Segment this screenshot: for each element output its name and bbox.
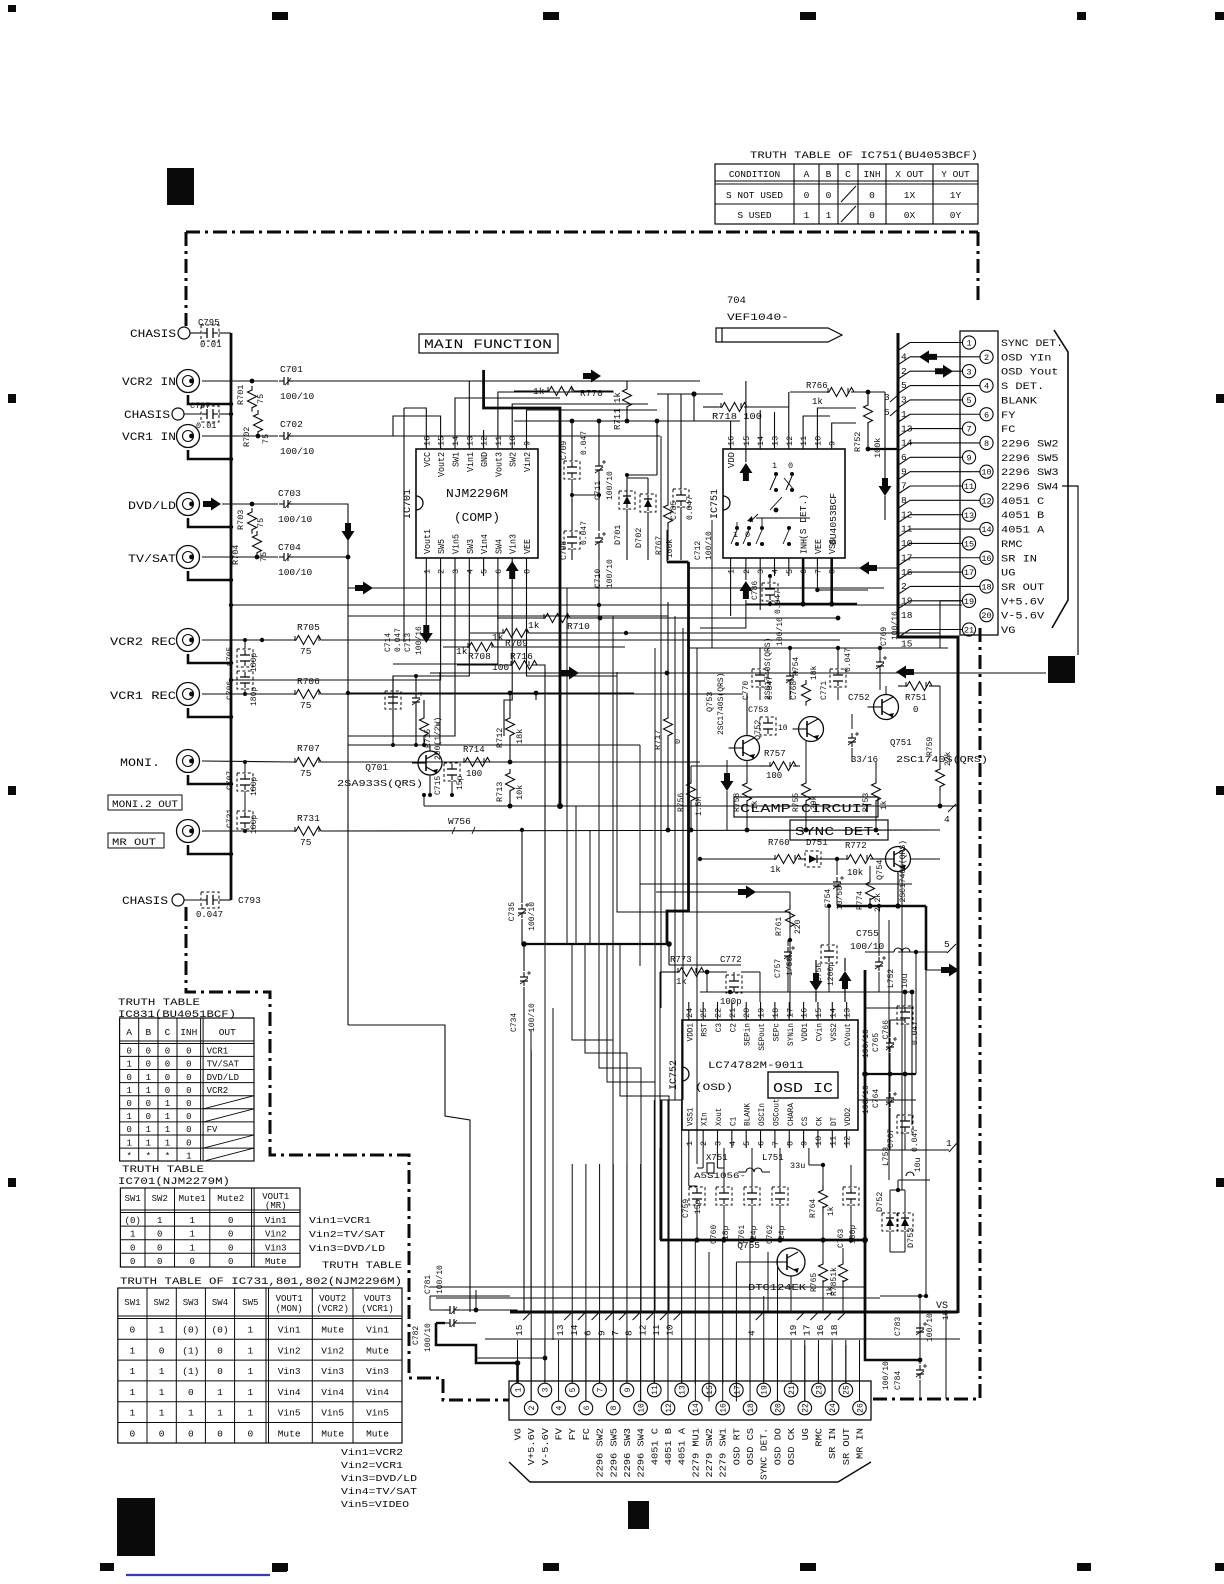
svg-text:1200p: 1200p: [827, 962, 836, 986]
svg-text:SW5: SW5: [437, 539, 447, 554]
truth table IC751 grid: [715, 164, 978, 224]
svg-text:TRUTH TABLE OF IC731,801,802(N: TRUTH TABLE OF IC731,801,802(NJM2296M): [120, 1276, 402, 1288]
right bracket: [1052, 330, 1068, 628]
svg-text:Vin1=VCR2: Vin1=VCR2: [341, 1447, 403, 1458]
IC752 pin 3 Xout: [717, 1130, 719, 1148]
right-middle black block: [1048, 656, 1075, 683]
capacitor C783 100/10: [919, 1323, 921, 1328]
capacitor C754 10/50: [836, 877, 838, 882]
svg-text:Mute: Mute: [265, 1257, 287, 1267]
capacitor C762 24p: [779, 1188, 781, 1193]
svg-text:0: 0: [130, 1325, 136, 1336]
svg-text:100/10: 100/10: [280, 446, 315, 457]
svg-text:16: 16: [815, 1324, 826, 1336]
resistor R701 75: [248, 386, 257, 412]
right connector pin21 wire: [910, 629, 962, 631]
svg-text:R706: R706: [297, 676, 320, 687]
wire 17 to bottom bus: [817, 1345, 819, 1383]
svg-text:13: 13: [465, 436, 475, 446]
svg-text:Vin2: Vin2: [278, 1345, 301, 1356]
svg-text:10: 10: [981, 468, 991, 478]
svg-text:B: B: [826, 169, 832, 180]
svg-text:16: 16: [727, 436, 737, 446]
svg-text:1.5M: 1.5M: [695, 797, 704, 816]
svg-text:0: 0: [186, 1047, 191, 1057]
svg-text:3: 3: [756, 569, 766, 574]
resistor R758 1k: [743, 779, 752, 805]
svg-text:100p: 100p: [720, 997, 742, 1007]
svg-text:SW4: SW4: [212, 1298, 228, 1308]
svg-text:VOUT2: VOUT2: [319, 1294, 346, 1304]
IC751 pin 9: [831, 430, 833, 449]
svg-text:100/10: 100/10: [882, 1361, 891, 1390]
bottom connector pin 5 FY: [565, 1383, 579, 1397]
right connector pin 15 RMC: [962, 537, 975, 550]
svg-text:0: 0: [869, 210, 875, 221]
svg-text:C769: C769: [880, 627, 889, 646]
wire pin19 feed: [940, 601, 962, 620]
svg-text:C703: C703: [278, 488, 301, 499]
svg-text:14: 14: [692, 1403, 701, 1413]
svg-text:VSS1: VSS1: [685, 1108, 695, 1126]
svg-text:*: *: [165, 1151, 170, 1161]
svg-text:13: 13: [771, 436, 781, 446]
IC701 pin 15 Vout2: [440, 430, 442, 449]
svg-text:2: 2: [437, 569, 447, 574]
svg-text:R704: R704: [231, 545, 241, 565]
svg-text:Mute1: Mute1: [179, 1194, 206, 1204]
wire bottom links: [694, 1240, 696, 1383]
thick ground bus left: [230, 381, 233, 900]
svg-text:C714: C714: [384, 633, 393, 652]
svg-text:100k: 100k: [873, 438, 883, 458]
svg-text:SR OUT: SR OUT: [842, 1427, 852, 1465]
bottom connector pin 12 4051 B: [661, 1401, 675, 1415]
right connector pin 3 OSD Yout: [962, 365, 975, 378]
svg-text:C702: C702: [280, 419, 303, 430]
svg-text:0: 0: [146, 1060, 151, 1070]
capacitor C734 symbol: [523, 972, 525, 977]
bottom connector box: [509, 1381, 871, 1420]
svg-text:19: 19: [761, 1385, 770, 1395]
svg-text:1: 1: [247, 1387, 253, 1398]
bottom connector pin 2 V+5.6V: [524, 1401, 538, 1415]
svg-text:VCR1 REC: VCR1 REC: [110, 691, 176, 703]
svg-text:1: 1: [126, 1138, 131, 1148]
svg-text:0: 0: [157, 1230, 162, 1240]
svg-text:VEF1040-: VEF1040-: [727, 312, 789, 324]
svg-text:C: C: [165, 1027, 171, 1038]
transistor Q755 DTC124EK: [777, 1248, 805, 1276]
arrow DVD down: [342, 523, 355, 541]
svg-text:1: 1: [146, 1125, 151, 1135]
IC752 pin 1 VSS1: [688, 1130, 690, 1148]
wire long top-right horiz: [884, 391, 886, 393]
IC752 pin 10 CK: [817, 1130, 819, 1148]
svg-text:18: 18: [771, 1008, 781, 1018]
svg-text:D702: D702: [634, 528, 644, 548]
svg-text:10k: 10k: [847, 868, 863, 878]
svg-text:0: 0: [247, 1429, 253, 1440]
svg-text:SYNC DET.: SYNC DET.: [760, 1428, 770, 1480]
bottom connector pin 14 2279 MU1: [689, 1401, 703, 1415]
IC752 pin 19 SEPout: [760, 1002, 762, 1020]
wire left feed to connector: [430, 1295, 510, 1297]
svg-text:R710: R710: [567, 621, 590, 632]
svg-text:0: 0: [130, 1257, 135, 1267]
svg-text:Vin2: Vin2: [265, 1230, 287, 1240]
right connector pin 12 4051 C: [980, 494, 993, 507]
wire V-5.6 long horizontal: [231, 604, 962, 606]
svg-text:MR IN: MR IN: [856, 1428, 866, 1459]
svg-text:75: 75: [300, 646, 312, 657]
svg-text:INH: INH: [180, 1027, 197, 1038]
IC701 pin 12 GND: [483, 430, 485, 449]
board border dash-dot right upper: [977, 232, 980, 302]
svg-text:75: 75: [300, 837, 312, 848]
bottom connector pin 6 FC: [579, 1401, 593, 1415]
svg-text:75: 75: [256, 518, 266, 528]
resistor R715 200(1/2W): [420, 714, 429, 740]
svg-text:(COMP): (COMP): [454, 512, 500, 525]
svg-text:R767: R767: [655, 536, 664, 555]
svg-text:3: 3: [451, 569, 461, 574]
svg-text:OSD IC: OSD IC: [773, 1081, 833, 1097]
IC701 pin 6 SW4: [497, 558, 499, 576]
svg-text:20: 20: [742, 1008, 752, 1018]
svg-text:R703: R703: [236, 510, 246, 530]
svg-text:MAIN FUNCTION: MAIN FUNCTION: [424, 338, 552, 352]
svg-text:2279 MU1: 2279 MU1: [691, 1428, 701, 1478]
svg-text:Vin3: Vin3: [509, 534, 519, 554]
svg-text:Vin1: Vin1: [466, 452, 476, 472]
wire IC751 pins down: [730, 576, 732, 616]
svg-text:1X: 1X: [904, 190, 916, 201]
svg-text:1k: 1k: [812, 397, 823, 407]
heavy osd ground bus: [660, 1239, 865, 1242]
svg-text:2SC1740S(QRS): 2SC1740S(QRS): [899, 840, 908, 902]
svg-text:7: 7: [596, 1387, 605, 1392]
svg-text:C1: C1: [728, 1117, 738, 1126]
resistor R751 0: [903, 682, 936, 691]
svg-text:1: 1: [146, 1138, 151, 1148]
wire 13 to bottom bus: [571, 1164, 573, 1383]
wire VCR1 line east: [293, 435, 660, 437]
svg-text:Vin3=DVD/LD: Vin3=DVD/LD: [341, 1473, 417, 1484]
svg-text:220: 220: [794, 919, 803, 934]
svg-text:S USED: S USED: [737, 210, 772, 221]
arrow into bus: [941, 964, 959, 977]
svg-text:VDD1: VDD1: [685, 1023, 695, 1041]
svg-text:OSD Yout: OSD Yout: [1001, 368, 1059, 379]
svg-text:14: 14: [451, 436, 461, 446]
svg-text:0: 0: [228, 1216, 233, 1226]
svg-text:100: 100: [466, 769, 482, 779]
IC752 pin 20 SEPin: [745, 1002, 747, 1020]
IC752 pin 14 VSS2: [831, 1002, 833, 1020]
svg-text:SR OUT: SR OUT: [1001, 583, 1044, 594]
wire 9 to bottom bus: [612, 1164, 614, 1401]
IC751 pin 13: [774, 430, 776, 449]
jog 4 right: [940, 805, 949, 807]
svg-text:A: A: [126, 1027, 132, 1038]
bottom connector pin 26 MR IN: [853, 1401, 867, 1415]
board border dash-dot left upper: [185, 232, 188, 326]
svg-text:100/10: 100/10: [606, 559, 615, 588]
svg-text:Vin4: Vin4: [366, 1387, 389, 1398]
svg-text:Vin1: Vin1: [265, 1216, 287, 1226]
svg-text:0: 0: [126, 1125, 131, 1135]
svg-text:0.047: 0.047: [196, 910, 223, 920]
transistor Q752: [799, 717, 824, 742]
svg-text:C713: C713: [404, 633, 413, 652]
svg-text:FV: FV: [555, 1427, 565, 1440]
truth table IC731 grid: [118, 1288, 402, 1443]
svg-text:1: 1: [130, 1387, 136, 1398]
right connector pin 1 SYNC DET.: [962, 336, 975, 349]
svg-text:1: 1: [159, 1325, 165, 1336]
svg-text:Mute: Mute: [321, 1429, 344, 1440]
svg-text:SR IN: SR IN: [1001, 554, 1037, 565]
svg-text:R761: R761: [775, 917, 784, 936]
arrow IC751 pin2 up: [739, 581, 752, 599]
svg-text:12: 12: [637, 1324, 648, 1336]
svg-text:21: 21: [964, 626, 974, 636]
board border dash-dot top: [186, 231, 978, 234]
bottom connector pin 17 OSD RT: [730, 1383, 744, 1397]
wire 4 to bottom bus: [763, 1296, 765, 1383]
svg-text:SW2: SW2: [509, 452, 519, 467]
svg-text:100/16: 100/16: [776, 617, 785, 646]
wire 4 route to bus: [767, 1252, 769, 1312]
svg-text:FC: FC: [1001, 425, 1015, 436]
arrow down right stem: [879, 478, 892, 496]
resistor R759 22k: [936, 765, 945, 791]
right connector pin 7 FC: [962, 422, 975, 435]
svg-text:CVin: CVin: [814, 1023, 824, 1041]
IC751 pin 5: [788, 558, 790, 576]
svg-text:Q753: Q753: [705, 692, 715, 712]
svg-text:CS: CS: [800, 1117, 810, 1126]
wire mid verticals descend: [598, 560, 600, 605]
svg-text:7: 7: [610, 1330, 621, 1336]
wire bundle verticals center: [347, 616, 349, 1025]
bottom connector pin 8 2296 SW5: [606, 1401, 620, 1415]
svg-text:75: 75: [300, 700, 312, 711]
svg-text:1: 1: [130, 1230, 135, 1240]
svg-text:26: 26: [856, 1403, 865, 1413]
svg-text:(0): (0): [211, 1325, 228, 1336]
svg-text:12: 12: [785, 436, 795, 446]
resistor R703 75: [248, 508, 257, 534]
svg-text:9: 9: [828, 441, 838, 446]
svg-text:9: 9: [966, 453, 971, 463]
resistor R755 39k: [802, 779, 811, 805]
svg-text:Q754: Q754: [875, 860, 885, 880]
wire mid bus y421: [514, 420, 740, 422]
IC752 pin 18 SEPc: [774, 1002, 776, 1020]
svg-text:4051 C: 4051 C: [1001, 497, 1044, 508]
svg-text:OSD CK: OSD CK: [787, 1427, 797, 1465]
svg-text:19: 19: [964, 597, 974, 607]
svg-text:100/10: 100/10: [280, 391, 315, 402]
IC752 pin 12 VDD2: [846, 1130, 848, 1148]
svg-text:1: 1: [146, 1086, 151, 1096]
svg-text:2: 2: [742, 569, 752, 574]
svg-text:0: 0: [146, 1047, 151, 1057]
svg-text:R713: R713: [495, 782, 505, 802]
IC752 pin 7 OSCout: [774, 1130, 776, 1148]
svg-text:D751: D751: [806, 838, 828, 848]
svg-text:1: 1: [165, 1099, 170, 1109]
svg-text:Vin4: Vin4: [321, 1387, 344, 1398]
right connector pin 14 4051 A: [980, 522, 993, 535]
wire 16 to bottom bus: [831, 1345, 833, 1401]
capacitor C735 symbol: [521, 904, 523, 909]
svg-text:INH: INH: [863, 169, 880, 180]
svg-text:8: 8: [523, 569, 533, 574]
IC751 pin 8 VSS: [830, 558, 833, 576]
svg-text:Y OUT: Y OUT: [941, 169, 970, 180]
svg-text:0.01: 0.01: [200, 340, 222, 350]
svg-text:(MON): (MON): [276, 1304, 303, 1314]
right connector pin 13 4051 B: [962, 508, 975, 521]
right connector pin 2 OSD YIn: [980, 350, 993, 363]
arrow IC701 Vin3 up: [506, 561, 519, 579]
svg-text:0: 0: [186, 1073, 191, 1083]
svg-text:19: 19: [788, 1324, 799, 1336]
svg-text:22k: 22k: [944, 751, 953, 766]
svg-text:Vin2=VCR1: Vin2=VCR1: [341, 1460, 403, 1471]
svg-text:18: 18: [747, 1403, 756, 1413]
svg-text:16: 16: [720, 1403, 729, 1413]
IC751 pin 7 VEE: [816, 558, 818, 576]
svg-text:16: 16: [800, 1008, 810, 1018]
resistor R765 1k: [819, 1260, 828, 1286]
wire 7 to bottom bus: [626, 1164, 628, 1383]
wire sync out right: [910, 858, 940, 860]
arrow OSD Yout right: [935, 365, 953, 378]
arrow clamp down: [721, 773, 734, 791]
svg-text:0: 0: [913, 705, 918, 715]
bottom connector pin 13 4051 A: [675, 1383, 689, 1397]
svg-text:Vout2: Vout2: [437, 452, 447, 477]
svg-text:R766: R766: [806, 381, 828, 391]
svg-text:1k: 1k: [827, 1206, 836, 1216]
svg-text:1: 1: [946, 1138, 952, 1149]
svg-text:R718 100: R718 100: [712, 412, 762, 422]
svg-text:VCR2 REC: VCR2 REC: [110, 637, 176, 649]
svg-text:R752: R752: [853, 432, 863, 452]
svg-text:C784: C784: [894, 1371, 903, 1390]
svg-text:Vin5: Vin5: [366, 1408, 389, 1419]
svg-text:1: 1: [159, 1387, 165, 1398]
svg-text:OSCIn: OSCIn: [757, 1103, 767, 1126]
wire bundle between clamp and osd: [639, 940, 641, 966]
svg-text:0.047: 0.047: [580, 521, 589, 545]
svg-text:LC74782M-9011: LC74782M-9011: [708, 1060, 804, 1072]
svg-text:Mute2: Mute2: [217, 1194, 244, 1204]
svg-text:CHASIS: CHASIS: [124, 410, 170, 422]
svg-text:R711 1k: R711 1k: [613, 392, 623, 430]
svg-text:100/16: 100/16: [415, 626, 424, 655]
svg-text:DVD/LD: DVD/LD: [207, 1073, 239, 1083]
resistor R704 75: [253, 531, 262, 557]
svg-text:1k: 1k: [676, 977, 687, 987]
svg-text:DT: DT: [829, 1117, 839, 1126]
truth table IC831 grid: [120, 1018, 254, 1161]
svg-text:TRUTH TABLE OF IC751(BU4053BCF: TRUTH TABLE OF IC751(BU4053BCF): [750, 150, 978, 162]
svg-text:SW3: SW3: [466, 539, 476, 554]
truth table IC701 grid: [120, 1188, 300, 1267]
board border dash-dot left lower path: [186, 907, 509, 1400]
svg-text:180p: 180p: [250, 687, 259, 706]
wire VCR2 line east: [293, 380, 700, 382]
wire heavy y944 segment: [524, 943, 669, 945]
wires osd bottom: [688, 1148, 690, 1186]
svg-text:6: 6: [583, 1330, 594, 1336]
wire 2 arrow left: [876, 567, 898, 569]
IC752 pin 16 VDD1: [803, 1002, 805, 1020]
bottom connector pin 4 FV: [552, 1401, 566, 1415]
svg-text:X OUT: X OUT: [895, 169, 924, 180]
svg-text:INH: INH: [800, 539, 810, 554]
svg-text:15: 15: [814, 1008, 824, 1018]
svg-text:R772: R772: [845, 841, 867, 851]
svg-text:1: 1: [804, 210, 810, 221]
IC751 pin 1: [730, 558, 732, 576]
svg-text:100/10: 100/10: [862, 1029, 871, 1058]
svg-text:5: 5: [944, 939, 950, 950]
svg-text:SW1: SW1: [124, 1298, 140, 1308]
svg-text:R756: R756: [677, 793, 686, 812]
capacitor C759 15p: [696, 1188, 698, 1193]
svg-text:10: 10: [508, 436, 518, 446]
svg-text:S NOT USED: S NOT USED: [726, 190, 783, 201]
bottom connector pin 19 SYNC DET.: [757, 1383, 771, 1397]
svg-text:(OSD): (OSD): [695, 1082, 733, 1094]
right connector pin 6 FY: [980, 408, 993, 421]
svg-text:Vin3: Vin3: [278, 1366, 301, 1377]
arrow feed IC751: [583, 370, 601, 383]
resistor R752 100k: [864, 401, 873, 427]
svg-text:SYNC DET.: SYNC DET.: [795, 825, 883, 839]
svg-text:12: 12: [843, 1136, 853, 1146]
wire pin1 junction: [476, 1309, 518, 1311]
IC751 ground bus: [775, 603, 857, 606]
svg-text:1: 1: [157, 1216, 162, 1226]
wire 6 to bottom bus: [599, 1164, 601, 1383]
wire y693 long: [348, 692, 560, 694]
svg-text:2296 SW5: 2296 SW5: [609, 1428, 619, 1478]
wire 12 to bottom bus: [653, 1100, 655, 1383]
svg-text:SW2: SW2: [154, 1298, 170, 1308]
svg-text:20: 20: [981, 611, 991, 621]
capacitor C767 0.047: [904, 1116, 906, 1121]
bottom connector pin 23 RMC: [812, 1383, 826, 1397]
IC701 pin 5 Vin4: [483, 558, 485, 576]
wire y394 feed: [657, 393, 723, 395]
svg-text:22: 22: [714, 1008, 724, 1018]
svg-text:Q701: Q701: [365, 762, 388, 773]
wire 18 to bottom bus: [845, 1345, 847, 1383]
svg-text:A: A: [804, 169, 810, 180]
svg-text:0: 0: [228, 1243, 233, 1253]
IC751 pin 14: [759, 430, 761, 449]
svg-text:(0): (0): [182, 1325, 199, 1336]
svg-text:18: 18: [829, 1324, 840, 1336]
svg-text:R764: R764: [809, 1199, 818, 1218]
